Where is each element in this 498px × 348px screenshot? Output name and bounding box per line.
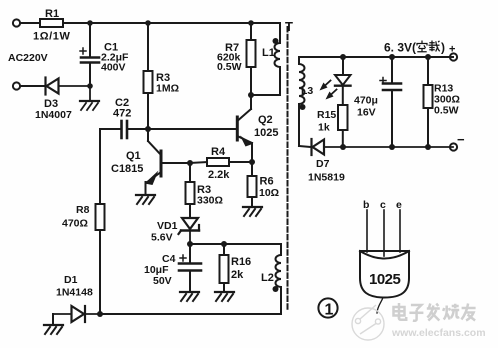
svg-text:c: c	[380, 199, 386, 211]
node LED top	[340, 54, 346, 60]
svg-text:D7: D7	[316, 158, 330, 170]
svg-text:1MΩ: 1MΩ	[156, 83, 179, 95]
svg-text:VD1: VD1	[157, 220, 178, 232]
capacitor C5 470u	[380, 57, 401, 147]
package pins	[367, 210, 400, 256]
resistor R3	[147, 23, 149, 71]
bottom wire	[100, 313, 281, 315]
transistor Q1	[145, 129, 191, 195]
node R13 bottom rail	[425, 144, 431, 150]
svg-text:Q2: Q2	[258, 114, 273, 126]
ground (C4)	[180, 292, 199, 301]
LED	[335, 57, 351, 105]
resistor R6	[251, 162, 253, 176]
capacitor C4	[179, 244, 201, 292]
watermark logo	[352, 305, 384, 340]
inductor L3	[299, 57, 311, 147]
inductor L1	[251, 23, 280, 95]
svg-text:R16: R16	[231, 256, 251, 268]
watermark glyph you	[461, 304, 475, 321]
wire	[20, 22, 40, 24]
glyph kong	[417, 41, 427, 52]
svg-text:L3: L3	[301, 85, 313, 97]
capacitor C2	[100, 121, 148, 138]
phase dot L3	[300, 104, 306, 110]
svg-text:1N5819: 1N5819	[308, 172, 345, 184]
resistor R3b 330	[189, 163, 191, 182]
diode D1	[53, 306, 100, 322]
svg-text:330Ω: 330Ω	[197, 195, 223, 207]
package lead	[377, 298, 383, 314]
svg-text:): )	[441, 41, 445, 55]
circled 1	[318, 298, 337, 317]
svg-text:1025: 1025	[254, 127, 278, 139]
capacitor C1	[80, 23, 99, 86]
svg-text:16V: 16V	[357, 107, 376, 119]
node R7-top	[248, 20, 254, 26]
svg-text:1Ω/1W: 1Ω/1W	[33, 31, 71, 43]
wire top rail	[63, 22, 280, 24]
svg-text:5.6V: 5.6V	[151, 232, 173, 244]
svg-text:1025: 1025	[369, 271, 401, 288]
svg-text:2k: 2k	[231, 269, 244, 281]
diode D3	[46, 78, 91, 95]
svg-text:C1815: C1815	[111, 163, 143, 175]
svg-text:Q1: Q1	[126, 150, 141, 162]
package body 1025	[360, 251, 409, 298]
svg-text:R15: R15	[317, 109, 336, 121]
terminal + out	[450, 53, 457, 60]
node R7/L1/Q2c	[248, 92, 254, 98]
svg-text:+: +	[449, 44, 455, 56]
svg-text:0.5W: 0.5W	[434, 105, 459, 117]
svg-text:470μ: 470μ	[354, 95, 378, 107]
svg-text:472: 472	[113, 108, 131, 120]
resistor R4	[190, 162, 207, 163]
resistor R13	[427, 57, 429, 85]
node R13 top	[425, 54, 431, 60]
right top rail	[299, 56, 453, 58]
wire left column	[99, 129, 101, 204]
svg-text:0.5W: 0.5W	[217, 61, 242, 73]
svg-text:b: b	[363, 199, 369, 211]
watermark glyph fa	[427, 304, 440, 321]
svg-text:T: T	[285, 19, 293, 34]
svg-text:470Ω: 470Ω	[62, 218, 88, 230]
node Q2e/R4/R6	[249, 159, 255, 165]
node D1	[97, 311, 103, 317]
resistor R1	[40, 19, 63, 27]
svg-text:R4: R4	[211, 146, 226, 158]
glyph zai	[429, 41, 440, 52]
phase dot L1	[273, 38, 279, 44]
node C2/R3/base	[145, 126, 151, 132]
node R16 top	[221, 241, 227, 247]
node D3/C1	[87, 83, 93, 89]
node R3-top	[145, 20, 151, 26]
svg-text:1: 1	[325, 302, 334, 319]
svg-text:−: −	[457, 132, 465, 147]
diode D7	[312, 139, 454, 155]
wire	[99, 230, 101, 314]
resistor R8	[96, 204, 105, 230]
node C top	[389, 54, 395, 60]
terminal AC bottom	[13, 82, 20, 89]
svg-text:10Ω: 10Ω	[259, 187, 279, 199]
phase dot L2	[273, 286, 279, 292]
svg-text:1k: 1k	[318, 122, 330, 134]
svg-text:L2: L2	[261, 272, 274, 284]
terminal AC top	[13, 19, 20, 26]
node base/R4/R5	[187, 160, 193, 166]
transformer core dashed	[287, 27, 289, 310]
svg-text:6. 3V(: 6. 3V(	[384, 41, 416, 55]
ground (C1)	[80, 86, 99, 110]
svg-text:L1: L1	[262, 47, 275, 59]
watermark glyph dian	[394, 303, 407, 320]
watermark glyph shao	[443, 304, 459, 320]
zener VD1	[179, 218, 200, 244]
svg-text:50V: 50V	[153, 275, 172, 287]
svg-text:AC220V: AC220V	[8, 52, 48, 64]
node LED bottom rail	[340, 144, 346, 150]
ground (R16)	[215, 292, 234, 301]
wire	[20, 85, 45, 87]
terminal - out	[450, 143, 457, 150]
svg-text:1N4007: 1N4007	[35, 109, 72, 121]
svg-text:R6: R6	[260, 176, 274, 188]
resistor R15	[338, 105, 348, 130]
inductor L2	[276, 244, 282, 314]
svg-text:2.2k: 2.2k	[208, 169, 230, 181]
ground (D1)	[44, 314, 63, 334]
ground (R6)	[243, 207, 262, 216]
wire Q2 base	[148, 128, 237, 130]
wire	[190, 243, 281, 245]
node VD1/C4	[187, 241, 193, 247]
node C1-top	[87, 20, 93, 26]
svg-text:R1: R1	[45, 8, 59, 20]
resistor R7	[250, 23, 252, 40]
svg-text:R8: R8	[76, 204, 90, 216]
transistor Q2	[237, 95, 252, 162]
svg-text:e: e	[396, 199, 402, 211]
svg-text:D1: D1	[64, 274, 78, 286]
LED arrows	[320, 81, 337, 100]
ground (Q1)	[136, 195, 155, 204]
resistor R16	[223, 244, 225, 255]
node C bottom rail	[389, 144, 395, 150]
svg-text:400V: 400V	[101, 62, 126, 74]
watermark glyph zi	[409, 305, 423, 321]
svg-text:www.elecfans.com: www.elecfans.com	[391, 327, 486, 339]
svg-text:1N4148: 1N4148	[56, 287, 93, 299]
